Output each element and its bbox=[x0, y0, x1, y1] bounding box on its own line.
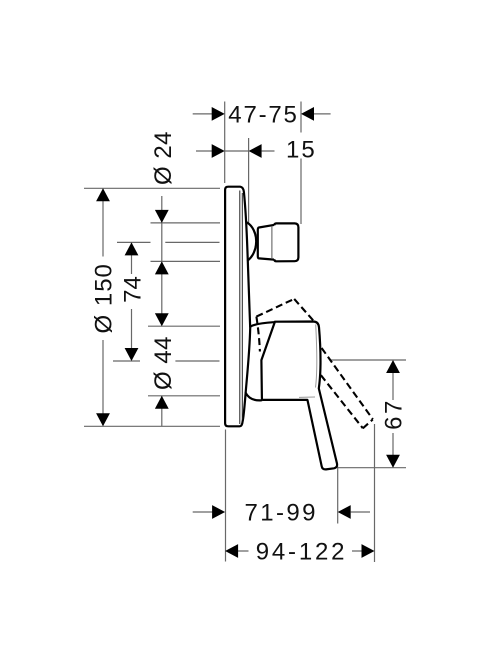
diverter knob end cap bbox=[274, 223, 298, 261]
svg-text:94-122: 94-122 bbox=[256, 539, 348, 566]
arrow d24 bottom bbox=[155, 261, 169, 274]
diverter knob body bbox=[258, 225, 274, 260]
extension line knob front face bbox=[300, 102, 302, 225]
extension line knob base front bbox=[248, 138, 250, 223]
svg-text:67: 67 bbox=[380, 398, 407, 430]
handle flange top edge bbox=[250, 322, 273, 326]
extension line lever tip solid bbox=[337, 467, 339, 524]
handle body and lever bbox=[261, 322, 337, 470]
arrow 67 bottom bbox=[386, 455, 400, 468]
handle body inner highlight bbox=[299, 325, 317, 398]
dimension 15 leader lines bbox=[196, 150, 275, 152]
arrow 15 right bbox=[249, 144, 262, 158]
knob body-cap joint line bbox=[271, 226, 273, 259]
extension line knob bottom bbox=[151, 260, 221, 262]
escutcheon plate outline bbox=[225, 187, 250, 427]
svg-text:Ø 44: Ø 44 bbox=[150, 336, 177, 390]
dimension 47-75 leader lines bbox=[193, 113, 331, 115]
arrow 94-122 right bbox=[362, 544, 375, 558]
arrow 15 left bbox=[212, 144, 225, 158]
plate rim crease lines bbox=[240, 191, 243, 425]
extension line handle flange bottom bbox=[148, 395, 220, 397]
dimension 74 line bbox=[131, 243, 133, 360]
dashed handle alt position left edge bbox=[256, 317, 260, 352]
arrow d44 bottom bbox=[155, 396, 169, 409]
svg-text:47-75: 47-75 bbox=[228, 102, 298, 129]
arrow d150 bottom bbox=[96, 413, 110, 426]
dashed lever alt tip bbox=[363, 419, 373, 428]
handle flange bottom edge bbox=[246, 393, 262, 400]
dimension 71-99 leader lines bbox=[193, 511, 370, 513]
svg-text:15: 15 bbox=[286, 137, 317, 164]
svg-text:74: 74 bbox=[120, 276, 147, 303]
diverter knob flange bbox=[247, 223, 256, 261]
arrow 74 top bbox=[125, 242, 139, 255]
arrow 71-99 left bbox=[212, 505, 225, 519]
svg-text:Ø 24: Ø 24 bbox=[150, 131, 177, 185]
svg-text:Ø 150: Ø 150 bbox=[91, 263, 118, 333]
extension line lever bottom right bbox=[338, 467, 407, 469]
extension line plate face bottom bbox=[225, 430, 227, 562]
extension line knob centerline bbox=[117, 241, 220, 243]
extension line knob top bbox=[151, 222, 221, 224]
dimension diameter24 line bbox=[161, 196, 163, 314]
dimension diameter44 line bbox=[161, 396, 163, 426]
arrow 47-75 right bbox=[301, 107, 314, 121]
dashed lever alt upper edge bbox=[322, 348, 373, 419]
extension line lever tip dashed bbox=[374, 424, 376, 562]
extension line plate top bbox=[84, 187, 220, 189]
arrow 67 top bbox=[386, 360, 400, 373]
extension line wall/plate-rear top bbox=[224, 102, 226, 184]
extension line plate bottom bbox=[84, 425, 220, 427]
arrow d150 top bbox=[96, 188, 110, 201]
arrow d24 top bbox=[155, 210, 169, 223]
dashed handle alt position right edge bbox=[294, 299, 313, 321]
dimension 67 line bbox=[392, 361, 394, 467]
dashed handle alt position top edge bbox=[256, 299, 294, 317]
arrow 94-122 left bbox=[225, 544, 238, 558]
arrow 47-75 left bbox=[212, 107, 225, 121]
dimension diameter150 line bbox=[102, 189, 104, 426]
arrow d44 top bbox=[155, 313, 169, 326]
dimension 94-122 leader lines bbox=[238, 550, 362, 552]
arrow 71-99 right bbox=[338, 505, 351, 519]
arrow 74 bottom bbox=[125, 348, 139, 361]
dashed lever alt lower edge bbox=[321, 375, 363, 428]
extension line handle centerline bbox=[113, 360, 220, 362]
extension line handle pivot right bbox=[331, 359, 406, 361]
svg-text:71-99: 71-99 bbox=[245, 500, 318, 527]
extension line handle flange top bbox=[148, 325, 220, 327]
